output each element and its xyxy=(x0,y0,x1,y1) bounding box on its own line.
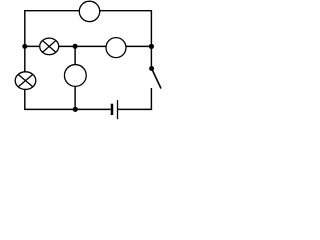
wire top xyxy=(24,10,151,12)
meter/bulb circle top xyxy=(79,1,99,21)
wire row2 horizontal xyxy=(25,45,152,47)
circle row2 xyxy=(106,38,126,58)
wire right vertical upper xyxy=(150,10,152,69)
wire middle branch vertical xyxy=(74,46,76,109)
wire left vertical xyxy=(24,10,26,109)
junction node mid-bottom xyxy=(73,107,78,112)
wire bottom left of battery xyxy=(24,108,111,110)
switch blade xyxy=(152,69,161,89)
junction node left-row2 xyxy=(22,44,27,49)
lamp left xyxy=(15,72,36,90)
wire bottom right of battery xyxy=(118,108,152,110)
switch pivot node xyxy=(149,66,154,71)
wire switch lower contact xyxy=(150,88,152,109)
lamp row2 xyxy=(40,38,59,55)
battery long thin plate xyxy=(117,100,119,119)
junction node mid-row2 xyxy=(73,44,78,49)
circle middle branch xyxy=(64,65,86,87)
battery short thick plate xyxy=(111,104,114,115)
junction node right-row2 xyxy=(149,44,154,49)
